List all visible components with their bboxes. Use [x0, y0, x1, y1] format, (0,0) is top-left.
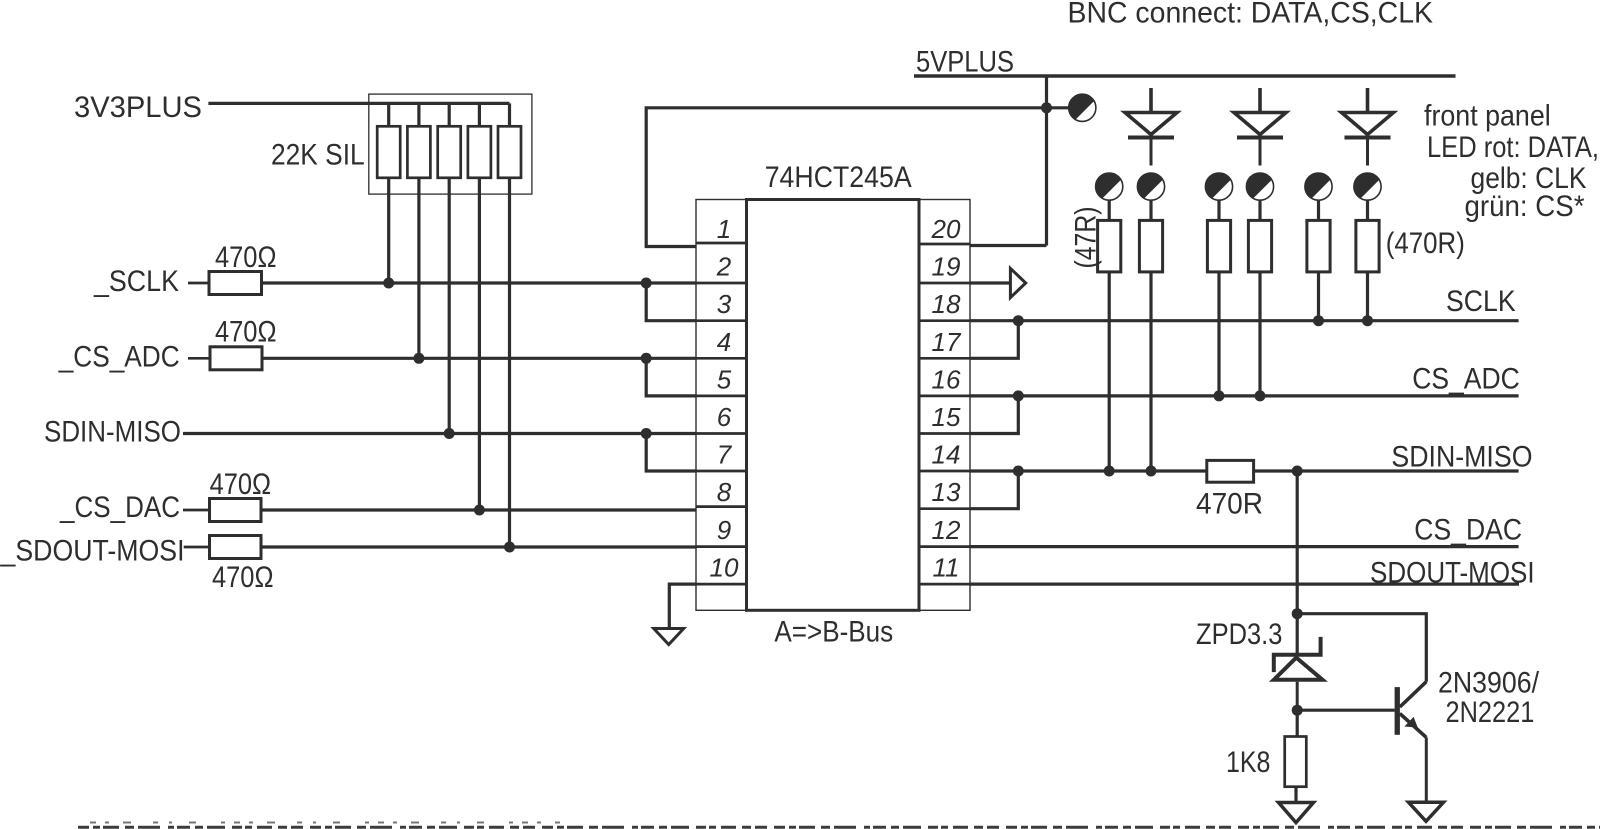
svg-text:1: 1 — [717, 214, 731, 244]
resistor R3 470ohm — [183, 499, 261, 522]
svg-text:_SCLK: _SCLK — [93, 265, 179, 298]
junction SCLK/RN1a — [383, 278, 394, 289]
wire pin13 tie — [970, 471, 1018, 509]
wire CS_DAC bus — [970, 545, 1519, 548]
wire to 5V connector — [1047, 106, 1069, 109]
resistor RC2 — [1356, 220, 1379, 320]
net label 5VPLUS — [916, 46, 1014, 79]
svg-text:5: 5 — [717, 364, 732, 394]
wire SDIN bus right part — [1253, 469, 1519, 472]
svg-text:(470R): (470R) — [1386, 227, 1465, 260]
junction pin4/pin5 tie — [641, 353, 652, 364]
svg-text:front panel: front panel — [1424, 100, 1551, 133]
net label SCLK — [1446, 285, 1516, 318]
junction SDIN/LED-A1 — [1104, 466, 1115, 477]
junction 5V node — [1041, 102, 1052, 113]
pin numbers right 20-11 — [931, 214, 962, 583]
junction pin2/pin3 tie — [641, 278, 652, 289]
resistor RN1d — [468, 103, 491, 510]
net label _SDOUT-MOSI — [0, 535, 184, 568]
resistor RN1b — [407, 103, 430, 358]
resistor RA2 — [1139, 220, 1162, 471]
connector pad C1 — [1305, 173, 1332, 220]
svg-text:18: 18 — [932, 289, 961, 319]
resistor RB1 — [1207, 220, 1230, 396]
wire zener to 1K8 — [1296, 710, 1299, 736]
pin dividers left — [696, 243, 747, 584]
svg-text:8: 8 — [717, 477, 732, 507]
svg-text:22K SIL: 22K SIL — [271, 138, 365, 171]
IC U1 74HCT245A outer pin frame — [696, 200, 970, 611]
svg-text:11: 11 — [933, 553, 960, 583]
svg-text:15: 15 — [932, 402, 961, 432]
net label CS_DAC — [1414, 514, 1522, 547]
wire pin3 tie — [646, 283, 696, 321]
label 22K SIL — [271, 138, 365, 171]
wire pin7 tie — [646, 434, 696, 472]
svg-text:16: 16 — [932, 364, 961, 394]
label 470ohm R1 — [215, 241, 277, 274]
junction CS_ADC/B2 — [1255, 390, 1266, 401]
svg-text:19: 19 — [932, 252, 961, 282]
connector pad B1 — [1205, 173, 1232, 220]
svg-text:14: 14 — [932, 440, 961, 470]
wire SDIN bus left part — [970, 469, 1208, 472]
label 74HCT245A — [765, 161, 912, 194]
net label _CS_DAC — [59, 491, 180, 524]
pin dividers right — [919, 244, 970, 584]
junction SCLK/C1 — [1313, 315, 1324, 326]
label 470R — [1196, 488, 1263, 521]
svg-text:2: 2 — [716, 252, 732, 282]
resistor RN1e — [498, 103, 521, 547]
resistor R5 470R — [1207, 460, 1254, 482]
transistor Q1 2N3906/2N2221 — [1395, 682, 1427, 803]
connector pad 5V — [1069, 94, 1096, 121]
net label _SDIN-MISO — [1376, 441, 1533, 474]
junction SDIN/RN1c — [444, 428, 455, 439]
svg-text:CS_ADC: CS_ADC — [1412, 363, 1520, 396]
svg-text:3: 3 — [717, 289, 732, 319]
label (470R) — [1386, 227, 1465, 260]
junction pin6/pin7 tie — [641, 428, 652, 439]
junction CS_ADC/B1 — [1214, 390, 1225, 401]
net label 3V3PLUS — [74, 91, 202, 124]
resistor network box RN1 22K SIL — [369, 94, 532, 194]
junction CS_DAC/RN1d — [474, 505, 485, 516]
svg-text:20: 20 — [931, 214, 961, 244]
resistor RA1 47R — [1098, 220, 1121, 471]
svg-text:BNC connect: DATA,CS,CLK: BNC connect: DATA,CS,CLK — [1068, 0, 1434, 30]
net label _CS_ADC — [58, 341, 180, 374]
label BNC connect — [1068, 0, 1434, 30]
resistor R2 470ohm — [188, 347, 262, 370]
junction pin16 tie — [1013, 390, 1024, 401]
ground under Q1 emitter — [1409, 802, 1444, 821]
label (47R) rotated — [1070, 207, 1103, 269]
svg-text:470Ω: 470Ω — [215, 241, 277, 274]
label 470ohm R3 — [210, 468, 272, 501]
svg-text:4: 4 — [717, 327, 731, 357]
junction SDIN/zener branch — [1292, 466, 1303, 477]
svg-text:_SDOUT-MOSI: _SDOUT-MOSI — [0, 535, 184, 568]
svg-text:1K8: 1K8 — [1226, 746, 1270, 779]
svg-text:(47R): (47R) — [1070, 207, 1103, 269]
svg-text:ZPD3.3: ZPD3.3 — [1196, 618, 1282, 651]
ground under 1K8 — [1279, 803, 1314, 823]
junction CS_ADC/RN1b — [413, 353, 424, 364]
wire SDIN-MISO to pin6 — [183, 432, 696, 435]
svg-text:3V3PLUS: 3V3PLUS — [74, 91, 202, 124]
connector pad C2 — [1354, 173, 1381, 220]
svg-text:6: 6 — [717, 402, 732, 432]
svg-text:grün: CS*: grün: CS* — [1465, 190, 1585, 223]
svg-text:_CS_ADC: _CS_ADC — [58, 341, 180, 374]
wire pin19 — [970, 281, 1010, 284]
wire _CS_DAC to pin8 — [261, 508, 696, 511]
label A=>B-Bus — [774, 616, 893, 649]
resistor RN1a — [377, 103, 400, 283]
svg-text:17: 17 — [932, 327, 962, 357]
svg-text:12: 12 — [932, 515, 961, 545]
wire SDIN to zener — [1296, 471, 1299, 655]
resistor RC1 — [1307, 220, 1330, 320]
svg-text:CS_DAC: CS_DAC — [1414, 514, 1522, 547]
wire pin15 tie — [970, 396, 1018, 434]
net label CS_ADC — [1412, 363, 1520, 396]
wire 5V drop to pin20 — [970, 76, 1047, 246]
zener diode ZPD3.3 — [1274, 637, 1323, 710]
net label _SCLK — [93, 265, 179, 298]
svg-text:SCLK: SCLK — [1446, 285, 1516, 318]
junction base node — [1292, 705, 1303, 716]
wire _CS_ADC to pin4 — [262, 357, 696, 360]
wire 3V3PLUS horizontal — [208, 102, 509, 105]
svg-text:9: 9 — [717, 515, 731, 545]
svg-text:_SDIN-MISO: _SDIN-MISO — [1376, 441, 1533, 474]
wire pin10 to ground — [669, 584, 696, 628]
junction SDOUT/RN1e — [504, 542, 515, 553]
ground under pin10 — [654, 629, 684, 645]
svg-text:SDOUT-MOSI: SDOUT-MOSI — [1370, 556, 1535, 589]
wire collector loop — [1297, 614, 1426, 682]
wire pin5 tie — [646, 358, 696, 396]
wire SDOUT bus — [970, 582, 1519, 585]
connector pad A1 — [1096, 173, 1123, 220]
arrow pin19 output — [1010, 268, 1025, 297]
svg-text:_CS_DAC: _CS_DAC — [59, 491, 180, 524]
svg-text:2N3906/: 2N3906/ — [1438, 667, 1540, 700]
label 1K8 — [1226, 746, 1270, 779]
svg-text:10: 10 — [710, 553, 739, 583]
wire _SDOUT-MOSI to pin9 — [261, 545, 696, 548]
wire CS_ADC bus — [970, 394, 1519, 397]
label front panel block — [1424, 100, 1599, 223]
svg-text:470Ω: 470Ω — [215, 316, 277, 349]
resistor R4 470ohm — [184, 536, 261, 559]
resistor R6 1K8 — [1285, 737, 1307, 804]
junction SCLK/C2 — [1362, 315, 1373, 326]
junction pin14 tie — [1013, 466, 1024, 477]
wire SCLK bus — [970, 319, 1519, 322]
net label SDOUT-MOSI — [1370, 556, 1535, 589]
svg-text:7: 7 — [717, 440, 733, 470]
svg-text:470Ω: 470Ω — [210, 468, 272, 501]
IC U1 74HCT245A body — [747, 200, 920, 611]
junction pin18 tie — [1013, 315, 1024, 326]
connector pad B2 — [1246, 173, 1273, 220]
wire pin17 tie — [970, 321, 1018, 359]
svg-text:13: 13 — [932, 477, 961, 507]
wire pin1 to 5V — [646, 108, 1046, 247]
resistor R1 470ohm — [188, 272, 262, 295]
cropped text row at bottom edge — [78, 823, 1600, 828]
label 470ohm R2 — [215, 316, 277, 349]
LED D3 green CS — [1342, 88, 1394, 166]
label ZPD3.3 — [1196, 618, 1282, 651]
wire _SCLK to pin2 — [262, 281, 697, 284]
svg-text:A=>B-Bus: A=>B-Bus — [774, 616, 893, 649]
svg-text:5VPLUS: 5VPLUS — [916, 46, 1014, 79]
junction SDIN/LED-A2 — [1146, 466, 1157, 477]
junction zener/collector node — [1292, 608, 1303, 619]
connector pad A2 — [1137, 173, 1164, 220]
LED D1 red DATA — [1125, 88, 1177, 166]
LED D2 yellow CLK — [1234, 88, 1286, 166]
wire base — [1297, 709, 1394, 712]
net label SDIN-MISO — [44, 416, 181, 449]
wire 5VPLUS rail — [914, 74, 1456, 78]
svg-text:74HCT245A: 74HCT245A — [765, 161, 912, 194]
svg-text:2N2221: 2N2221 — [1446, 696, 1535, 729]
resistor RN1c — [438, 103, 461, 433]
svg-text:SDIN-MISO: SDIN-MISO — [44, 416, 181, 449]
svg-text:470R: 470R — [1196, 488, 1263, 521]
label 2N3906/2N2221 — [1438, 667, 1540, 730]
svg-text:470Ω: 470Ω — [212, 561, 274, 594]
resistor RB2 — [1248, 220, 1271, 396]
label 470ohm R4 — [212, 561, 274, 594]
pin numbers left 1-10 — [710, 214, 739, 583]
svg-text:LED rot: DATA,: LED rot: DATA, — [1427, 131, 1599, 164]
